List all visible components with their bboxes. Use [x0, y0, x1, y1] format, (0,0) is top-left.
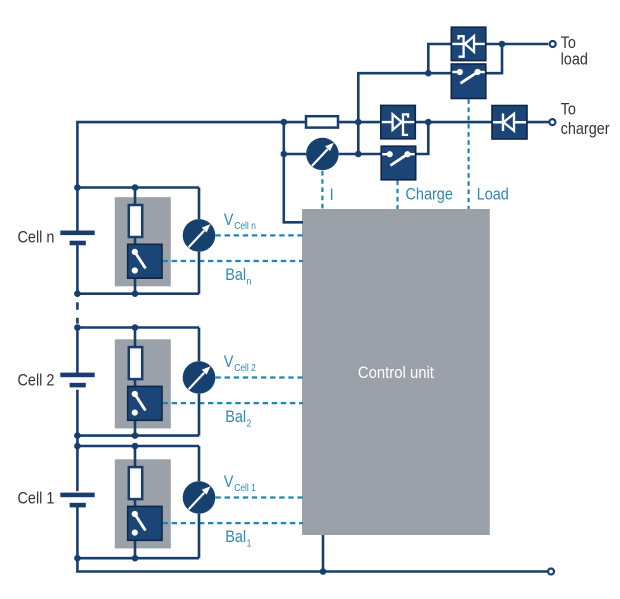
resistor R bal 2	[129, 347, 142, 379]
wire bus between cell 2 and cell 1 batteries	[76, 390, 79, 491]
wire cell n bottom loop	[77, 292, 199, 295]
dashed net Load control line	[468, 99, 470, 209]
resistor R shunt body	[306, 116, 338, 127]
switch S bal n	[128, 244, 162, 278]
wire to load diode D1	[428, 44, 451, 73]
junction rail / load riser	[355, 119, 362, 126]
junction charge branch merge	[425, 119, 432, 126]
wire top positive rail	[77, 122, 548, 230]
control unit U1 box	[302, 209, 490, 535]
battery cell n symbol	[60, 231, 94, 246]
battery cell 2 symbol	[60, 373, 94, 388]
wire cell n top loop	[77, 186, 199, 189]
dashed net V_Cell n sense line	[216, 234, 304, 236]
junction bus / cell 1 top	[74, 443, 81, 450]
switch S charge	[381, 146, 416, 180]
wire cell 1 balancing chain	[134, 446, 137, 558]
wire bus below cell n battery	[76, 245, 79, 293]
wire cell n voltmeter leads	[198, 188, 201, 294]
terminal to charger	[549, 119, 555, 125]
wire cell 1 voltmeter leads	[198, 446, 201, 558]
wire cell 2 balancing chain	[134, 328, 137, 436]
dashed net Bal 2 control line	[163, 402, 304, 404]
svg-text:Load: Load	[477, 185, 509, 203]
terminal battery negative	[548, 569, 554, 575]
svg-text:1: 1	[247, 538, 252, 549]
svg-text:Cell n: Cell n	[18, 228, 55, 246]
wire cell 2 voltmeter leads	[198, 328, 201, 436]
junction bus / cell 1 bottom	[74, 555, 81, 562]
gray balancing module box cell 1	[115, 459, 171, 548]
wire ammeter branch	[284, 153, 381, 156]
switch S bal 2	[128, 386, 162, 420]
svg-text:Cell 2: Cell 2	[18, 371, 55, 389]
junction bus / cell 2 top	[74, 324, 81, 331]
gray balancing module box cell n	[115, 197, 171, 286]
wire cell 1 top loop	[77, 445, 199, 448]
junction chain 2 top	[132, 324, 139, 331]
gray balancing module box cell 2	[115, 339, 171, 428]
junction chain 1 top	[132, 443, 139, 450]
dashed net I current-sense line	[321, 171, 323, 209]
svg-text:Bal: Bal	[225, 408, 246, 426]
junction rail / control feed	[281, 119, 288, 126]
junction ground / control lead	[320, 568, 327, 575]
svg-text:To: To	[561, 100, 576, 118]
resistor R bal 1	[129, 467, 142, 499]
svg-text:n: n	[247, 276, 252, 287]
junction chain n top	[132, 184, 139, 191]
battery cell 1 symbol	[60, 493, 94, 508]
svg-text:Cell 1: Cell 1	[234, 482, 256, 493]
junction chain 2 bottom	[132, 432, 139, 439]
wire cell 2 top loop	[77, 326, 199, 329]
resistor R bal n	[129, 205, 142, 237]
wire cell 1 bottom loop	[77, 557, 199, 560]
wire negative bottom rail	[77, 507, 547, 572]
wire supply feed to control unit	[284, 122, 303, 222]
voltmeter M V_Cell n	[183, 219, 216, 252]
junction bus / cell n bottom	[74, 290, 81, 297]
svg-text:charger: charger	[561, 120, 610, 138]
svg-text:2: 2	[247, 418, 252, 429]
diode D load (bypass)	[451, 27, 486, 60]
svg-text:Cell n: Cell n	[234, 220, 256, 231]
wire load branch output	[486, 44, 549, 73]
junction bus / cell n top	[74, 184, 81, 191]
wire bus above cell 2 battery	[76, 328, 79, 373]
dashed net V_Cell 1 sense line	[216, 496, 304, 498]
junction ammeter right	[355, 151, 362, 158]
switch S load	[451, 64, 486, 99]
diode D charger input	[492, 106, 527, 140]
diode D charge (bypass)	[381, 105, 416, 138]
junction load branch split	[425, 70, 432, 77]
switch S bal 1	[128, 506, 162, 540]
svg-text:Bal: Bal	[225, 528, 246, 546]
junction load branch merge	[499, 41, 506, 48]
junction ammeter left	[281, 151, 288, 158]
svg-text:Cell 2: Cell 2	[234, 362, 256, 373]
voltmeter M V_Cell 1	[183, 481, 216, 514]
wire cell n balancing chain	[134, 188, 137, 294]
svg-text:Charge: Charge	[406, 185, 454, 203]
dashed net Bal 1 control line	[163, 522, 304, 524]
wire control unit ground lead	[322, 535, 325, 572]
svg-text:Cell 1: Cell 1	[18, 489, 55, 507]
svg-text:Bal: Bal	[225, 266, 246, 284]
svg-text:load: load	[561, 50, 588, 68]
junction chain n bottom	[132, 290, 139, 297]
dashed net Charge control line	[396, 181, 398, 210]
junction bus / cell 2 bottom	[74, 432, 81, 439]
svg-text:V: V	[224, 473, 234, 491]
junction chain 1 bottom	[132, 555, 139, 562]
dashed net Bal n control line	[163, 260, 304, 262]
svg-text:Control unit: Control unit	[358, 364, 435, 382]
terminal to load	[550, 41, 556, 47]
svg-text:V: V	[224, 353, 234, 371]
svg-text:I: I	[330, 186, 334, 204]
svg-text:V: V	[224, 211, 234, 229]
dashed wire series-stack continuation	[76, 302, 79, 323]
ammeter M I	[306, 138, 339, 171]
wire load branch riser	[358, 73, 451, 154]
dashed net V_Cell 2 sense line	[216, 376, 304, 378]
wire charge switch output	[416, 122, 429, 154]
wire cell 2 bottom loop	[77, 434, 199, 437]
voltmeter M V_Cell 2	[183, 361, 216, 394]
